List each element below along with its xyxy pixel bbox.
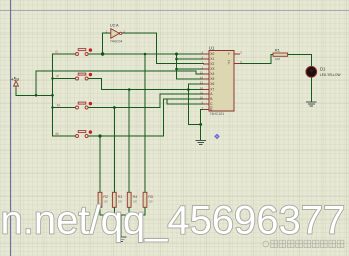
wire +5v horizontal to bus	[16, 94, 53, 96]
watermark small bottom right	[263, 240, 344, 247]
button SW3 row3	[57, 102, 92, 109]
svg-text:U1: U1	[209, 46, 215, 51]
svg-text:100: 100	[275, 57, 280, 61]
node row3 R3 riser junction	[113, 106, 116, 109]
svg-text:0: 0	[56, 50, 58, 54]
node row1 fanout junction	[175, 53, 178, 56]
wire R4 bottom lead	[128, 207, 130, 215]
wire +5v branch up	[35, 71, 37, 95]
svg-text:n.net/qq_45696377: n.net/qq_45696377	[1, 198, 346, 242]
wire R2 bottom lead	[99, 207, 101, 215]
wire R3 riser	[113, 108, 115, 193]
svg-text:X6: X6	[210, 82, 214, 86]
wire R4 riser	[128, 90, 130, 193]
wire left bus vertical	[52, 54, 54, 136]
svg-text:LED-YELLOW: LED-YELLOW	[320, 73, 341, 77]
svg-text:U2:A: U2:A	[110, 23, 119, 28]
svg-text:10: 10	[200, 95, 204, 99]
wire row3	[53, 94, 204, 108]
svg-text:11: 11	[200, 90, 203, 94]
node row1 inverter input junction	[101, 52, 104, 55]
node +5v feed A	[35, 94, 38, 97]
wire LED to ground	[310, 77, 312, 101]
wire R1 to LED	[288, 55, 312, 67]
svg-text:74HC151: 74HC151	[210, 112, 225, 116]
node +5v feed B on bus	[51, 94, 54, 97]
wire E net branch	[188, 90, 200, 125]
wire +5v long feed to X4	[36, 71, 204, 74]
node fanout X1 junction	[175, 58, 178, 61]
svg-text:X2: X2	[210, 62, 214, 66]
wire R3 bottom lead	[113, 207, 115, 215]
svg-text:14: 14	[200, 75, 204, 79]
svg-text:R1: R1	[275, 47, 281, 52]
resistor R5	[143, 192, 153, 207]
wire R5 bottom lead	[144, 207, 146, 215]
svg-text:X0: X0	[210, 52, 214, 56]
button SW4 row4	[56, 130, 93, 137]
watermark big text	[1, 198, 346, 242]
resistor R3	[112, 192, 122, 207]
resistor R4	[127, 192, 137, 207]
inverter gate U2:A 74HC04	[106, 23, 126, 44]
wire resistor ground bus	[100, 214, 145, 216]
wire X3 feed	[177, 68, 204, 70]
wire /Y to R1	[239, 55, 273, 64]
sheet border top edge	[0, 10, 349, 12]
resistor R1	[273, 47, 288, 61]
IC U1 74HC151 multiplexer	[200, 46, 242, 116]
sheet border left edge	[10, 0, 12, 256]
button SW1 row1	[56, 48, 93, 55]
svg-text:N: N	[57, 104, 60, 108]
power +5v symbol	[11, 77, 20, 89]
svg-text:X3: X3	[210, 67, 214, 71]
svg-text:X7: X7	[210, 88, 214, 92]
wire inverter input drop	[102, 33, 104, 54]
ground near chip E pin	[196, 140, 206, 144]
ground below resistor bus	[116, 237, 126, 241]
wire X6 branch	[188, 84, 203, 90]
wire X5 feed	[177, 78, 204, 80]
node bus row2 tap	[51, 77, 53, 79]
svg-text:D1: D1	[320, 66, 326, 71]
node bus row3 tap	[51, 106, 53, 108]
wire X1 feed	[177, 58, 204, 60]
svg-text:74HC04: 74HC04	[110, 39, 123, 43]
wire C feed	[167, 99, 204, 104]
wire E pin to ground	[201, 110, 204, 141]
svg-text:X1: X1	[210, 57, 214, 61]
node row2 X6-X7 branch junction	[187, 88, 190, 91]
svg-text:X4: X4	[210, 72, 214, 76]
wire +5v stem	[15, 89, 17, 96]
node row1 R5 riser junction	[144, 53, 147, 56]
LED D1	[306, 66, 341, 77]
ground below LED	[307, 102, 317, 106]
node row4 R2 riser junction	[98, 134, 101, 137]
node marker blue diamond	[214, 134, 220, 140]
svg-text:13: 13	[200, 80, 204, 84]
node row2 R4 riser junction	[128, 88, 131, 91]
wire row2	[53, 79, 204, 90]
svg-text:M: M	[56, 132, 59, 136]
wire R5 riser	[144, 54, 146, 192]
node E pin ground junction	[199, 123, 202, 126]
node fanout X3 junction	[175, 68, 178, 71]
resistor R2	[98, 192, 108, 207]
wire R2 riser	[99, 136, 101, 192]
wire row1 fanout vertical	[176, 54, 178, 79]
svg-text:12: 12	[200, 86, 204, 90]
wire row4	[53, 99, 204, 136]
wire inverter input	[103, 32, 111, 34]
button SW2 row2	[57, 73, 93, 80]
wire inverter output to X2	[122, 33, 204, 63]
svg-text:X5: X5	[210, 77, 214, 81]
wire bus ground drop	[120, 215, 122, 237]
wire row1 to chip X0	[53, 53, 205, 55]
svg-text:15: 15	[200, 70, 204, 74]
